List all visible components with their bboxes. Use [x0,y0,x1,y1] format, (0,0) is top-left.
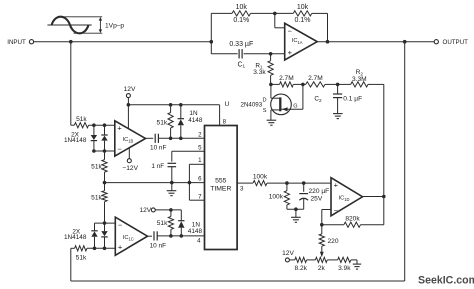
node rail IC1B supply [127,103,131,107]
node rail 51k [169,103,173,107]
ground pot network [353,260,361,269]
diode 1N4148 pin4 [178,210,202,236]
diode D2 1N4148 cathode up [101,125,107,151]
wire 8.2k to 2k [307,259,316,261]
node R1 JFET drain [269,83,273,87]
label pin 4 [197,238,201,245]
transistor Q1 2N4093 [241,84,303,119]
svg-text:2.7M: 2.7M [279,75,294,82]
wire IC1C plus rail [71,247,116,249]
svg-text:820k: 820k [345,215,360,222]
svg-text:4148: 4148 [188,228,203,235]
label pin 1 [198,157,202,164]
node 12V 51k lower [169,208,173,212]
IC U1 555 timer body [205,126,238,250]
svg-text:1: 1 [198,157,202,164]
capacitor 10nF upper [150,134,166,152]
wire top feedback rail [211,12,327,14]
svg-text:3.3M: 3.3M [352,76,367,83]
ground 100k 220uF [291,209,301,222]
svg-text:+: + [117,123,122,132]
pin 1 wire [189,164,204,200]
wire IC1B minus rail [92,149,115,153]
svg-text:−: − [117,145,122,154]
ground 1nF [167,183,177,196]
resistor R1 3.3k [253,54,273,85]
svg-text:INPUT: INPUT [7,39,26,46]
wire shunt bottoms [287,208,304,210]
capacitor C1 0.33uF [229,41,253,69]
pin 7 wire [189,199,204,201]
svg-text:7: 7 [198,193,202,200]
svg-text:51k: 51k [157,120,168,127]
svg-text:IC1A: IC1A [292,38,303,45]
wire IC1C output [148,235,153,237]
svg-text:−: − [334,206,339,215]
svg-text:0.1%: 0.1% [233,17,249,24]
svg-text:100k: 100k [253,174,268,181]
supply 12V top [124,86,136,105]
op-amp IC1B [115,121,146,156]
wire IC1D minus feedback [322,210,331,225]
wire IC1C minus rail [95,222,116,224]
resistor 10k second 0.1% [293,4,312,24]
pin 6 wire [105,182,205,184]
node at x211 input junction [210,40,214,44]
svg-text:IC1D: IC1D [339,196,350,203]
label pin 8 [223,118,227,125]
svg-text:0.33 µF: 0.33 µF [229,41,253,48]
node rail diode [179,103,183,107]
watermark SeekIC.com [418,274,474,286]
resistor 51k pullup pin2 [157,105,174,139]
svg-text:−12V: −12V [122,165,138,172]
wire inverting input drop [275,13,285,27]
label pin 3 [240,186,244,193]
ground JFET source [267,120,277,125]
resistor 51k IC1C input [75,246,87,262]
resistor 8.2k [294,257,307,272]
node diode pair B left top [92,123,96,127]
node pin4 diode [180,234,184,238]
svg-text:555: 555 [215,177,227,184]
ground C2 [333,114,343,119]
svg-text:3.3k: 3.3k [253,69,266,76]
node pin4 51k [169,234,173,238]
sine wave 1Vp-p annotation [47,17,124,34]
wire IC1B output [146,137,154,139]
svg-text:U: U [225,101,230,108]
svg-text:51k: 51k [76,116,87,123]
wire to 555 pin2 [158,137,204,139]
svg-text:+: + [334,181,339,190]
svg-text:100k: 100k [269,194,284,201]
wire feedback to output [327,13,329,41]
svg-text:0.1%: 0.1% [295,17,311,24]
svg-text:+: + [118,243,123,252]
capacitor C2 0.1uF [314,84,362,113]
op-amp IC1D [331,178,363,216]
node IC1B minus chain [103,149,107,153]
svg-text:51k: 51k [91,195,102,202]
label pin 6 [198,175,202,182]
resistor 100k shunt [269,183,290,209]
resistor 51k chain upper [91,151,107,183]
label pin 2 [198,131,202,138]
wire IC1D output [363,196,384,198]
node feedback at output [326,40,330,44]
node gate junction [301,83,305,87]
wire C1 to op-amp [244,53,285,55]
svg-text:220: 220 [328,238,339,245]
svg-text:−: − [118,221,123,230]
svg-text:4: 4 [197,238,201,245]
resistor 2.7M first [271,75,303,87]
svg-text:51k: 51k [91,163,102,170]
svg-text:25V: 25V [311,195,323,202]
svg-text:+: + [288,48,293,57]
svg-text:3.9k: 3.9k [338,265,351,272]
wire 820k rail [322,224,384,226]
resistor 10k first 0.1% [232,4,251,24]
node pin6 1nF [170,181,174,185]
svg-text:12V: 12V [282,250,294,257]
diode D1 1N4148 cathode down [91,125,97,151]
label 2X 1N4148 lower [64,229,87,241]
wire R2 to IC1D output riser [383,84,385,224]
resistor R2 3.3M [338,69,384,87]
resistor 51k chain lower [91,183,107,224]
wire 1nF to pin6 rail [171,167,173,183]
node pin6 junction [103,181,107,185]
svg-text:12V: 12V [139,207,151,214]
label pin 5 [198,144,202,151]
svg-text:1 nF: 1 nF [151,163,164,170]
svg-text:10 nF: 10 nF [150,242,166,249]
node feedback 220 [320,223,324,227]
node ground stub [294,207,298,211]
output terminal [434,39,468,46]
resistor 220 [319,225,339,247]
pin 3 wire [237,182,253,184]
svg-text:10k: 10k [297,4,309,11]
wire top feedback left riser [210,13,212,53]
wire output rail [317,41,434,43]
wire 100k to IC1D plus [267,182,331,184]
svg-text:2.7M: 2.7M [308,75,323,82]
wiper arrow [320,246,324,257]
node diode pair B right top [103,123,107,127]
label 2X 1N4148 upper [64,132,87,144]
node pin2 diode [179,137,183,141]
wire to 555 pin4 [157,235,204,237]
resistor 820k [344,215,361,227]
wire 12V rail [128,104,219,106]
svg-text:TIMER: TIMER [210,186,231,193]
node between 10k resistors [273,12,277,16]
node 100k shunt [285,181,289,185]
svg-text:6: 6 [198,175,202,182]
node pin6 pin17 riser [188,181,192,185]
svg-text:IC1B: IC1B [123,137,134,144]
node noninverting input R1 [269,52,273,56]
wire bottom feedback rail [71,248,405,281]
label pin 7 [198,193,202,200]
svg-text:10k: 10k [236,4,248,11]
node pin2 51k [169,137,173,141]
node input to IC1B branch [69,40,73,44]
svg-text:D: D [262,97,266,103]
wire IC1B plus rail [71,124,115,126]
resistor 2.7M second [303,75,338,87]
wire IC1B V+ stub [127,105,129,129]
svg-text:1Vp–p: 1Vp–p [105,22,124,29]
op-amp IC1C [115,217,147,255]
node output branch down [403,40,407,44]
svg-text:8: 8 [223,118,227,125]
wire 2k to 3.9k [327,259,337,261]
svg-text:SeekIC.com: SeekIC.com [418,274,474,286]
capacitor 1nF [151,163,176,170]
capacitor 10nF lower [150,231,166,249]
svg-text:220 µF: 220 µF [309,188,330,195]
supply -12V IC1B [122,148,138,172]
wire rail corner to pin8 [219,105,221,126]
resistor 3.9k [338,257,352,272]
wire input drop to IC1B [70,42,72,126]
svg-text:12V: 12V [124,86,136,93]
svg-text:G: G [293,103,297,109]
svg-text:51k: 51k [76,254,87,261]
node 220uF top [302,181,306,185]
svg-text:51k: 51k [157,220,168,227]
diode 1N4148 pin2 [178,105,203,139]
potentiometer 2k [315,257,327,272]
wire output down riser [404,42,406,281]
node C2 junction [336,83,340,87]
op-amp IC1A [285,23,318,60]
svg-text:1N4148: 1N4148 [64,137,87,144]
resistor 100k series [253,174,268,186]
svg-text:1N4148: 1N4148 [64,234,87,241]
svg-text:3: 3 [240,186,244,193]
supply 12V pot [282,250,295,262]
pin 5 wire [172,151,205,161]
svg-text:OUTPUT: OUTPUT [443,39,469,46]
capacitor 220uF 25V [299,183,329,209]
svg-text:2: 2 [198,131,202,138]
svg-text:S: S [263,108,267,114]
svg-text:2k: 2k [318,265,326,272]
svg-text:5: 5 [198,144,202,151]
diode D4 1N4148 cathode down [101,223,107,248]
node IC1D output [382,195,386,199]
input terminal [7,39,33,46]
svg-text:0.1 µF: 0.1 µF [343,96,362,103]
wire input rail [34,41,212,43]
svg-text:2N4093: 2N4093 [241,102,263,109]
wire 3.9k to ground [351,259,357,261]
label U [225,101,230,108]
svg-text:−: − [288,26,293,35]
node diode pair C right bottom [103,247,107,251]
svg-text:4148: 4148 [188,117,203,124]
resistor 51k IC1B input [74,116,88,128]
svg-text:IC1C: IC1C [123,235,134,242]
wire C1 branch left [211,53,237,55]
diode D3 1N4148 cathode up [91,223,97,248]
svg-text:8.2k: 8.2k [294,265,307,272]
node IC1C minus chain [103,221,107,225]
supply 12V lower [139,207,181,214]
svg-text:10 nF: 10 nF [150,145,166,152]
node diode pair C left bottom [93,247,97,251]
resistor 51k pullup pin4 [157,210,174,236]
